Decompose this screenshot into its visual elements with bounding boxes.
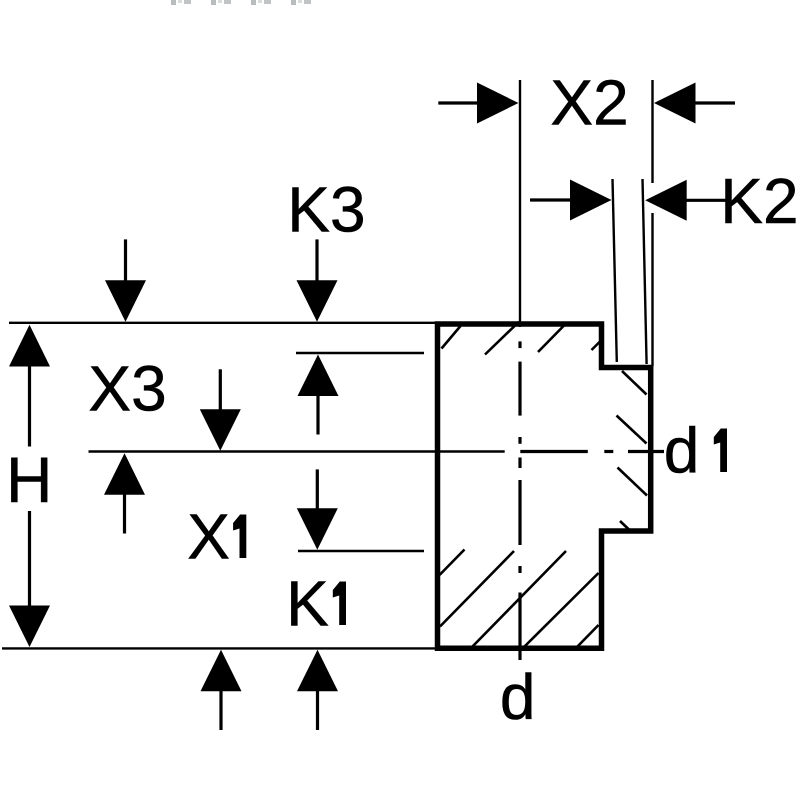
vertical centerline dash-dot inside body bbox=[518, 341, 521, 660]
extension line centerline-left L3 bbox=[89, 450, 505, 453]
H dimension arrows bbox=[9, 325, 50, 647]
svg-text:X2: X2 bbox=[550, 67, 628, 139]
svg-text:X: X bbox=[187, 501, 230, 573]
X3 dimension arrows bbox=[105, 280, 146, 322]
extension line K1 level L4 bbox=[298, 550, 424, 552]
hatch lines bottom band bbox=[440, 550, 599, 647]
svg-text:K3: K3 bbox=[287, 174, 365, 246]
K2 left extension line (slanted) bbox=[613, 179, 617, 362]
K2 dimension arrows bbox=[530, 198, 571, 201]
fitting body outline bbox=[438, 324, 651, 648]
vertical centerline extension above body (X2 left extension) bbox=[519, 80, 521, 327]
K2 right extension line (slanted) bbox=[643, 179, 647, 364]
extension line branch-top level L2 bbox=[296, 352, 424, 354]
faint cropped text remnant top bbox=[171, 0, 311, 5]
svg-text:K: K bbox=[286, 568, 329, 640]
svg-text:X3: X3 bbox=[88, 353, 166, 425]
svg-text:H: H bbox=[6, 444, 52, 516]
svg-text:d: d bbox=[500, 661, 536, 733]
horizontal centerline dash-dot through branch bbox=[520, 450, 664, 453]
K1 dimension arrows bbox=[297, 508, 338, 550]
svg-text:d: d bbox=[664, 415, 700, 487]
extension line top face L1 bbox=[9, 322, 440, 324]
X2 right extension line (with gap at K2 arrow) bbox=[651, 80, 653, 183]
extension line bottom face L5 bbox=[2, 647, 440, 649]
hatch lines top band bbox=[442, 322, 601, 355]
svg-text:K2: K2 bbox=[720, 165, 798, 237]
hatch lines branch (opposite direction) bbox=[617, 371, 648, 532]
X2 dimension arrows bbox=[438, 101, 477, 104]
X1 dimension arrows bbox=[200, 409, 241, 451]
K3 dimension arrows bbox=[297, 280, 338, 322]
